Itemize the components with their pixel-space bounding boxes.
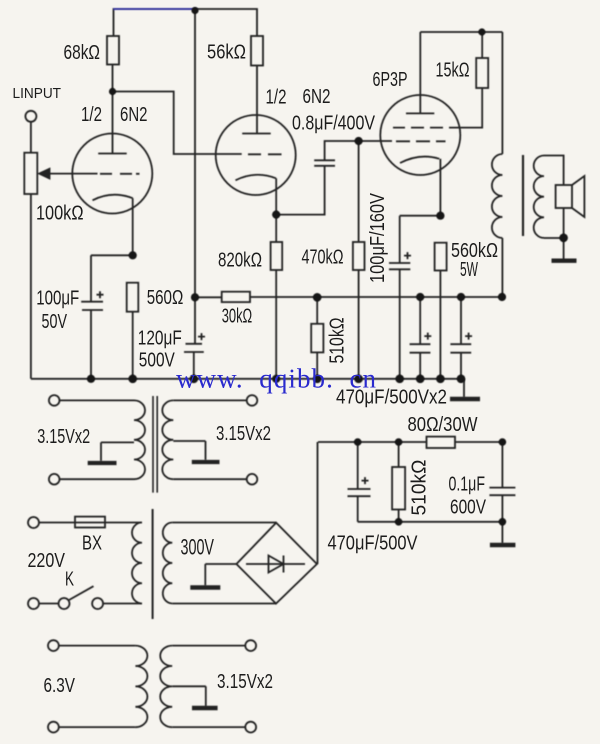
svg-text:3.15Vx2: 3.15Vx2	[216, 423, 271, 445]
svg-text:68kΩ: 68kΩ	[64, 42, 101, 64]
svg-text:1/2: 1/2	[81, 104, 102, 126]
svg-text:220V: 220V	[28, 550, 66, 572]
svg-text:120μF: 120μF	[138, 328, 182, 350]
svg-text:510kΩ: 510kΩ	[409, 459, 431, 515]
svg-text:100μF/160V: 100μF/160V	[367, 192, 389, 283]
svg-text:5W: 5W	[460, 259, 478, 281]
svg-text:15kΩ: 15kΩ	[436, 60, 470, 82]
svg-text:100μF: 100μF	[36, 288, 79, 310]
svg-text:LINPUT: LINPUT	[13, 85, 62, 102]
svg-text:6P3P: 6P3P	[373, 69, 408, 91]
svg-text:300V: 300V	[181, 535, 215, 560]
svg-text:BX: BX	[82, 533, 102, 555]
svg-text:820kΩ: 820kΩ	[218, 249, 262, 271]
svg-text:600V: 600V	[450, 497, 487, 519]
svg-text:470kΩ: 470kΩ	[302, 246, 344, 268]
svg-text:100kΩ: 100kΩ	[36, 203, 84, 225]
svg-text:470μF/500V: 470μF/500V	[328, 533, 419, 555]
svg-text:510kΩ: 510kΩ	[327, 317, 349, 363]
svg-text:6N2: 6N2	[303, 86, 331, 108]
svg-text:6N2: 6N2	[120, 104, 148, 126]
svg-text:1/2: 1/2	[266, 87, 287, 109]
svg-text:30kΩ: 30kΩ	[222, 306, 253, 328]
svg-text:56kΩ: 56kΩ	[207, 42, 246, 64]
svg-text:K: K	[65, 569, 74, 591]
svg-text:3.15Vx2: 3.15Vx2	[217, 671, 273, 693]
svg-text:0.8μF/400V: 0.8μF/400V	[292, 113, 376, 135]
svg-text:3.15Vx2: 3.15Vx2	[37, 426, 90, 448]
svg-text:0.1μF: 0.1μF	[449, 474, 486, 496]
svg-text:6.3V: 6.3V	[44, 675, 76, 697]
svg-text:www. qqibb. cn: www. qqibb. cn	[176, 364, 377, 394]
svg-text:80Ω/30W: 80Ω/30W	[408, 414, 478, 436]
svg-text:560Ω: 560Ω	[147, 287, 184, 309]
svg-text:500V: 500V	[139, 350, 176, 372]
svg-text:50V: 50V	[42, 311, 68, 333]
